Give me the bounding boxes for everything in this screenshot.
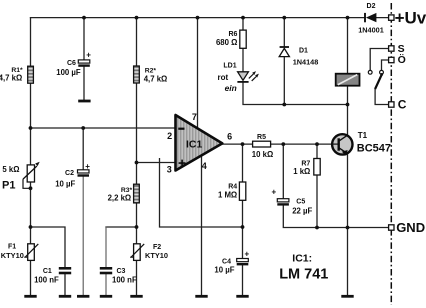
svg-text:+: + bbox=[86, 50, 91, 59]
svg-text:2,2 kΩ: 2,2 kΩ bbox=[108, 194, 132, 203]
svg-text:KTY10: KTY10 bbox=[1, 251, 24, 260]
svg-text:1N4001: 1N4001 bbox=[358, 26, 384, 35]
svg-text:GND: GND bbox=[396, 220, 425, 235]
terminal C bbox=[389, 98, 407, 112]
svg-text:R5: R5 bbox=[257, 134, 266, 141]
ground symbol under C1 bbox=[59, 295, 71, 298]
wire C5 branch and GND rail bbox=[283, 144, 388, 227]
wire node A to C1 bbox=[31, 227, 66, 295]
resistor R4 bbox=[218, 182, 246, 200]
resistor R3 bbox=[108, 184, 140, 203]
wire D1 branch bbox=[283, 18, 285, 105]
wire relay/collector/emitter column bbox=[347, 18, 349, 295]
svg-text:C1: C1 bbox=[43, 268, 52, 275]
svg-text:F2: F2 bbox=[153, 244, 161, 251]
net boundary dash-dot line bbox=[390, 3, 392, 305]
ground symbol under C3 bbox=[100, 295, 112, 298]
potentiometer P1 bbox=[2, 162, 40, 192]
svg-text:C3: C3 bbox=[117, 268, 126, 275]
terminal +Uv bbox=[389, 8, 426, 27]
ground symbol under C2 bbox=[77, 295, 89, 298]
relay switch lever bbox=[375, 74, 382, 89]
svg-text:1 kΩ: 1 kΩ bbox=[293, 167, 310, 176]
ground symbol under F1 bbox=[24, 295, 36, 298]
wire R2/R3/F2 column bbox=[136, 18, 138, 295]
svg-text:+: + bbox=[245, 249, 250, 258]
svg-text:IC1: IC1 bbox=[186, 139, 203, 151]
capacitor C5 bbox=[272, 187, 313, 215]
svg-text:C2: C2 bbox=[65, 170, 74, 177]
wire O contact bbox=[382, 60, 389, 70]
temperature sensor F2 KTY10 bbox=[130, 244, 168, 261]
resistor R6 bbox=[216, 30, 246, 48]
diode D1 1N4148 bbox=[279, 47, 318, 67]
ground symbol under pin4 bbox=[195, 295, 207, 298]
svg-text:1N4148: 1N4148 bbox=[293, 58, 319, 67]
transistor T1 BC547 bbox=[332, 131, 391, 155]
svg-text:C4: C4 bbox=[222, 259, 231, 266]
terminal O (Oeffner) bbox=[389, 53, 406, 66]
relay contact O bbox=[380, 70, 384, 74]
svg-text:+: + bbox=[85, 162, 90, 171]
svg-text:LM 741: LM 741 bbox=[279, 267, 328, 283]
svg-text:10 µF: 10 µF bbox=[214, 266, 234, 275]
svg-text:1 MΩ: 1 MΩ bbox=[218, 191, 237, 200]
wire R4/C4 column bbox=[242, 144, 244, 295]
svg-text:C6: C6 bbox=[67, 60, 76, 67]
wire pin4 to ground bbox=[201, 156, 203, 295]
svg-text:22 µF: 22 µF bbox=[292, 206, 312, 215]
relay coil K1 bbox=[336, 74, 360, 86]
svg-text:rot: rot bbox=[218, 73, 229, 82]
wire C contact bbox=[375, 89, 389, 105]
svg-text:4: 4 bbox=[202, 161, 207, 171]
svg-text:5 kΩ: 5 kΩ bbox=[2, 165, 19, 174]
wire R7 branch bbox=[316, 144, 318, 227]
wire S contact bbox=[370, 49, 389, 71]
wire op-amp output net bbox=[222, 143, 332, 145]
op-amp IC1 bbox=[167, 112, 232, 174]
svg-text:4,7 kΩ: 4,7 kΩ bbox=[0, 74, 22, 83]
svg-text:BC547: BC547 bbox=[357, 143, 391, 155]
svg-text:7: 7 bbox=[192, 112, 197, 122]
svg-text:IC1:: IC1: bbox=[292, 253, 312, 265]
svg-text:D2: D2 bbox=[367, 3, 376, 10]
ground symbol under C6 bbox=[78, 100, 90, 103]
wire feedback branch bbox=[160, 159, 243, 227]
svg-text:+: + bbox=[272, 187, 277, 196]
svg-text:4,7 kΩ: 4,7 kΩ bbox=[144, 74, 168, 83]
svg-text:S: S bbox=[398, 43, 405, 55]
resistor R7 bbox=[293, 159, 320, 177]
diode D2 1N4001 bbox=[358, 3, 384, 35]
svg-text:6: 6 bbox=[227, 131, 232, 141]
wire top supply rail bbox=[31, 17, 389, 19]
capacitor C1 bbox=[34, 267, 71, 285]
svg-text:C: C bbox=[398, 98, 407, 112]
svg-text:R4: R4 bbox=[228, 184, 237, 191]
capacitor C2 bbox=[55, 162, 90, 189]
wire pin2 net horizontal bbox=[31, 127, 176, 129]
svg-text:F1: F1 bbox=[8, 244, 16, 251]
svg-text:ein: ein bbox=[225, 83, 237, 93]
svg-text:680 Ω: 680 Ω bbox=[216, 38, 237, 47]
svg-text:R2*: R2* bbox=[145, 67, 157, 74]
svg-text:KTY10: KTY10 bbox=[145, 251, 168, 260]
svg-text:100 nF: 100 nF bbox=[34, 276, 59, 285]
wire R6/LED column bbox=[243, 18, 348, 105]
wire C6 branch bbox=[83, 18, 85, 100]
wire C2 branch bbox=[82, 128, 84, 170]
relay contact S bbox=[368, 70, 372, 74]
svg-text:Ö: Ö bbox=[398, 53, 406, 66]
wire pin3 net horizontal bbox=[137, 162, 176, 164]
svg-text:P1: P1 bbox=[2, 179, 15, 191]
capacitor C6 bbox=[56, 50, 91, 77]
svg-text:+Uv: +Uv bbox=[395, 8, 426, 27]
capacitor C3 bbox=[100, 267, 137, 285]
svg-text:10 kΩ: 10 kΩ bbox=[252, 150, 273, 159]
svg-text:T1: T1 bbox=[358, 131, 368, 140]
svg-text:D1: D1 bbox=[299, 48, 308, 55]
wire pin7 to rail bbox=[197, 18, 199, 128]
svg-text:100 nF: 100 nF bbox=[112, 276, 137, 285]
svg-text:C5: C5 bbox=[296, 199, 305, 206]
svg-text:R6: R6 bbox=[228, 31, 237, 38]
svg-text:10 µF: 10 µF bbox=[55, 180, 75, 189]
svg-text:100 µF: 100 µF bbox=[56, 68, 81, 77]
resistor R1 bbox=[0, 66, 33, 83]
ground symbol under emitter bbox=[341, 295, 353, 298]
note IC1: LM 741 bbox=[279, 253, 328, 283]
terminal S bbox=[389, 43, 405, 55]
wire C3 to node B bbox=[106, 226, 137, 228]
LED LD1 bbox=[218, 62, 259, 93]
svg-text:2: 2 bbox=[167, 131, 172, 141]
terminal GND bbox=[389, 220, 425, 235]
svg-text:LD1: LD1 bbox=[223, 62, 236, 69]
resistor R5 bbox=[252, 134, 273, 159]
resistor R2 bbox=[134, 66, 168, 83]
wire left column R1/P1/F1 bbox=[30, 18, 32, 295]
ground symbol under F2 bbox=[130, 295, 142, 298]
temperature sensor F1 KTY10 bbox=[1, 244, 39, 261]
capacitor C4 bbox=[214, 249, 249, 274]
svg-text:3: 3 bbox=[167, 165, 172, 175]
ground symbol under C4 bbox=[236, 295, 248, 298]
